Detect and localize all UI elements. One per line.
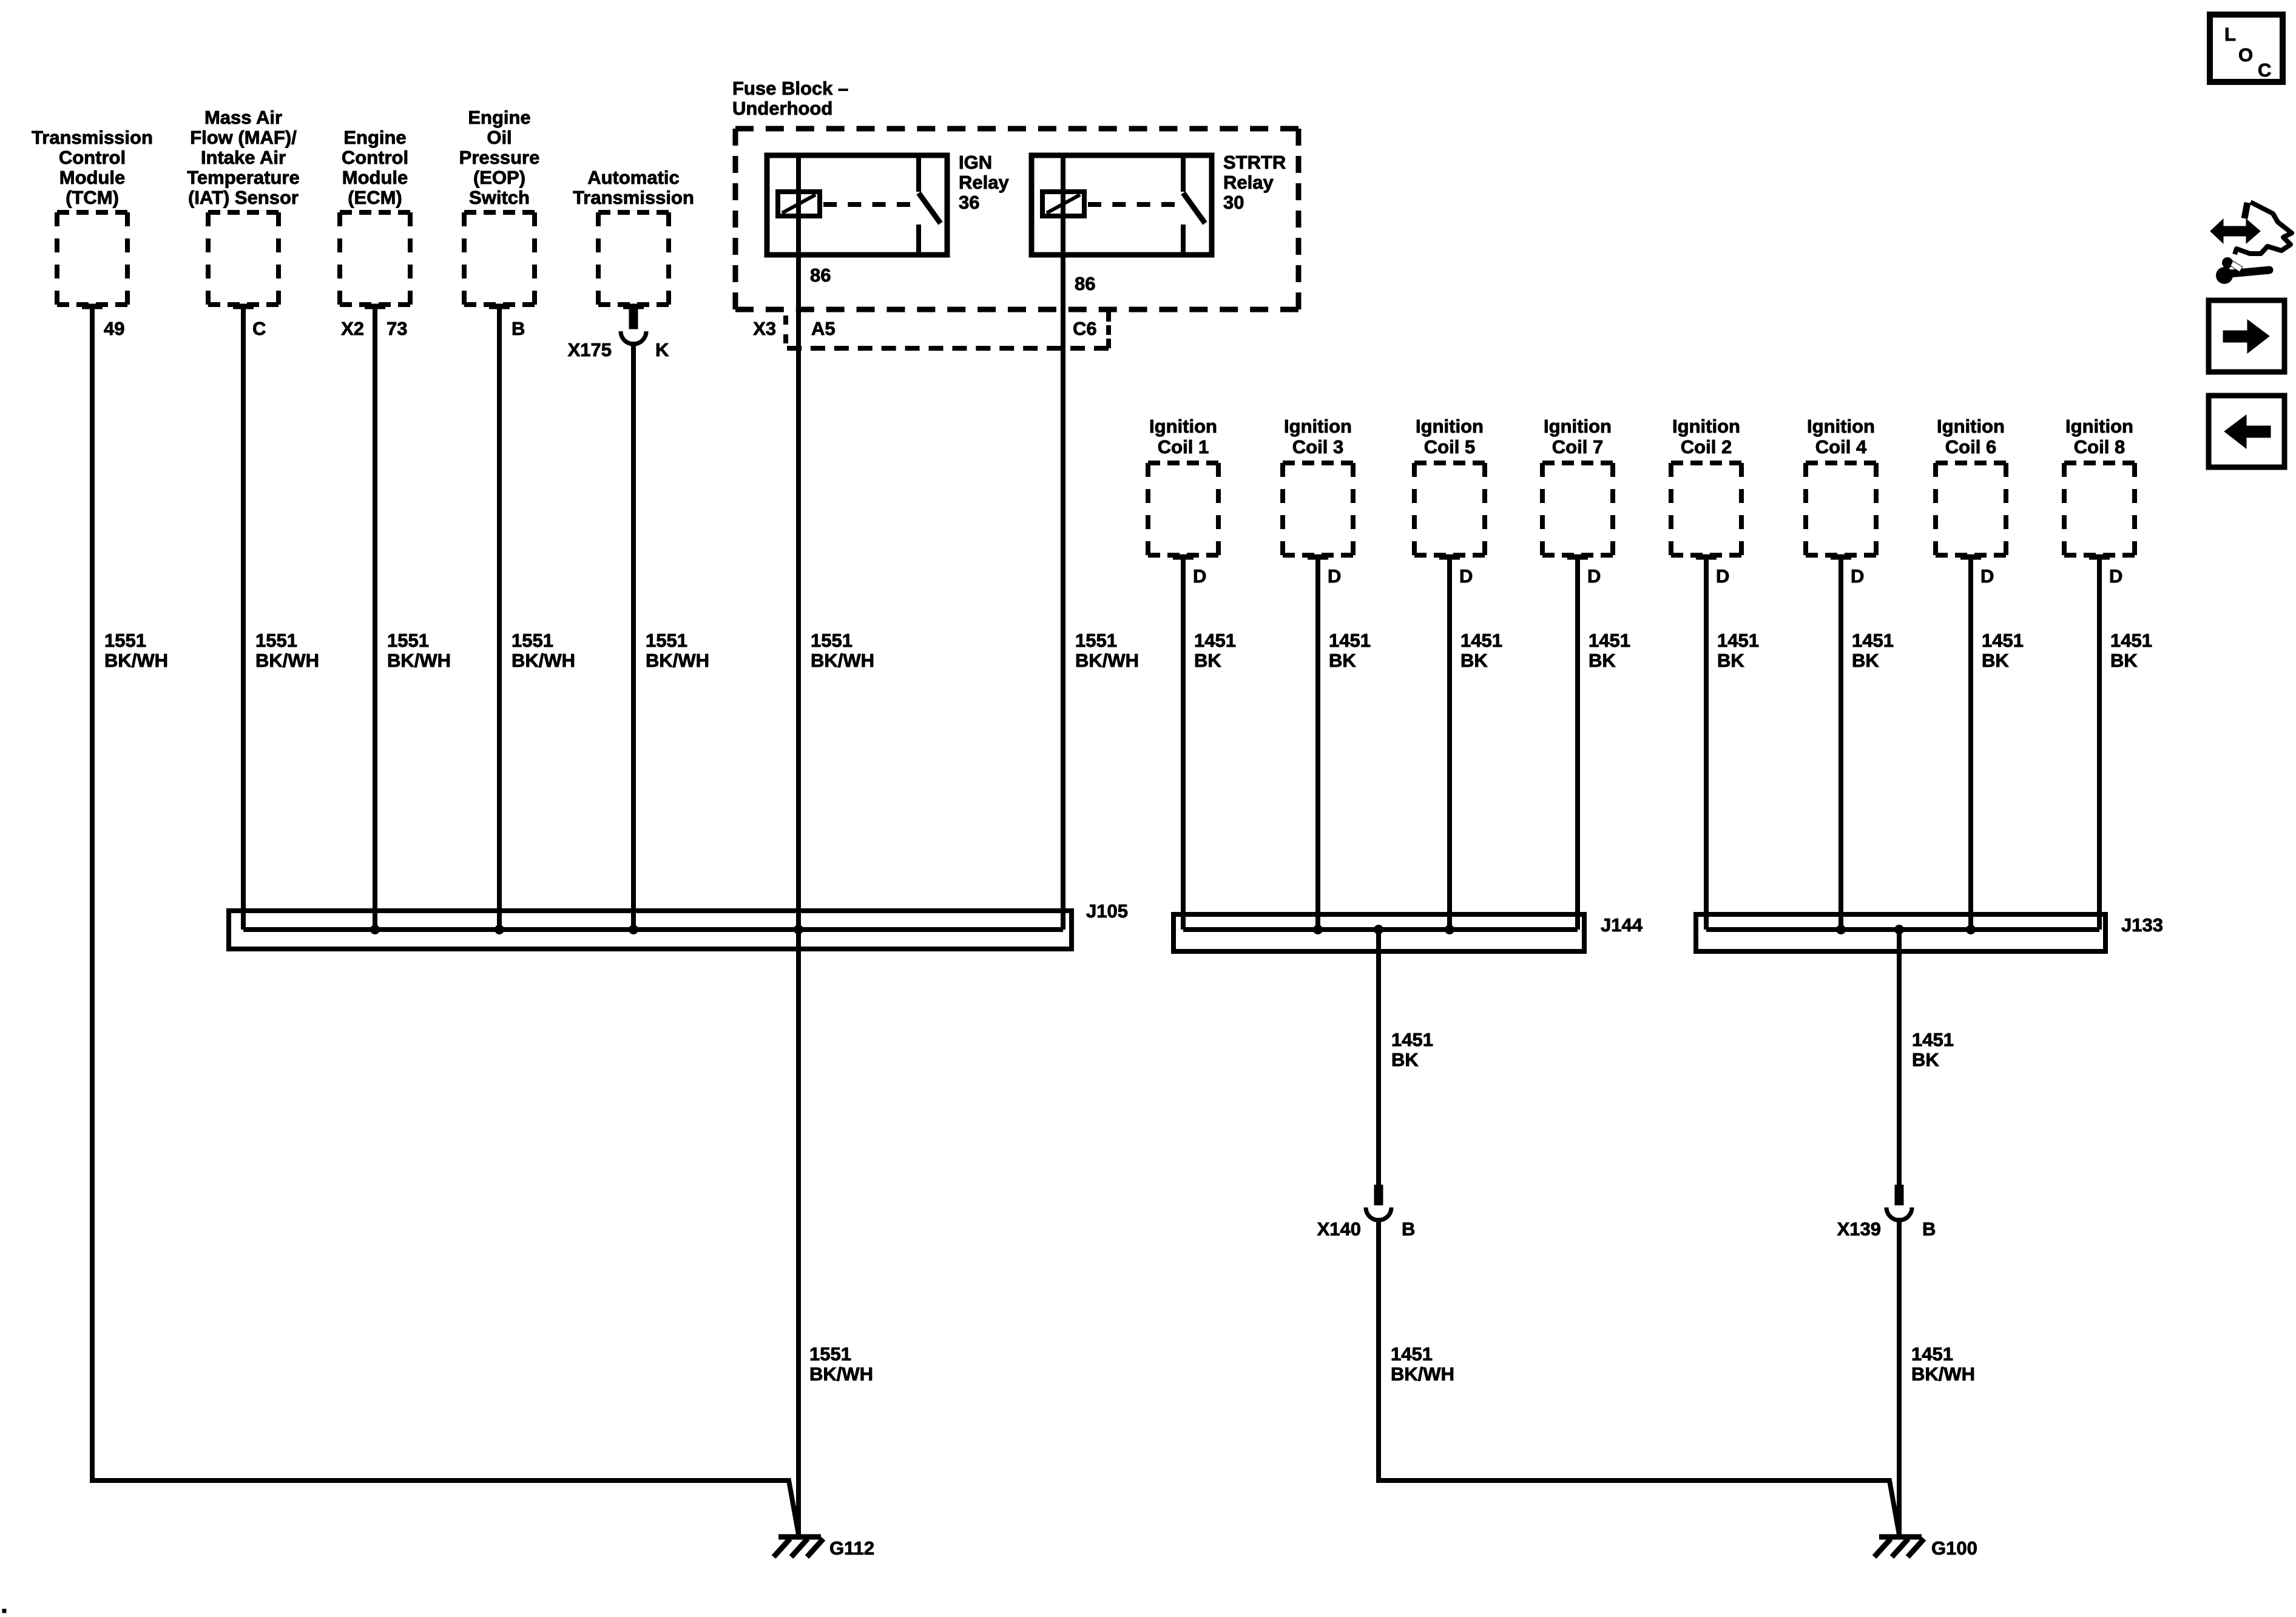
svg-text:K: K bbox=[655, 339, 669, 360]
svg-text:Ignition: Ignition bbox=[1416, 416, 1484, 437]
connector X3 pins A5 / C6 (dashed) bbox=[753, 312, 1109, 348]
svg-text:B: B bbox=[1402, 1218, 1415, 1240]
wire label 1551 BK/WH above G112 bbox=[809, 1343, 873, 1385]
wire 1451 BK/WH from X140 to G100 bbox=[1379, 1218, 1899, 1534]
wire 1551 BK/WH from STRTR relay pin 86 / C6 to splice J105 bbox=[1061, 155, 1065, 930]
pin 49 label (TCM) bbox=[104, 318, 124, 339]
connector X140 pin B (in-line connector) bbox=[1317, 1185, 1416, 1240]
wire label 1451 BK above X140 bbox=[1391, 1029, 1433, 1070]
svg-text:D: D bbox=[1328, 565, 1341, 587]
icon vehicle diagnostic (car with arrow and wrench) bbox=[2210, 202, 2292, 284]
wire label 1451 BK at x=2600 bbox=[1589, 630, 1630, 671]
svg-text:49: 49 bbox=[104, 318, 124, 339]
svg-text:86: 86 bbox=[810, 265, 831, 286]
svg-text:X2: X2 bbox=[341, 318, 364, 339]
svg-text:J105: J105 bbox=[1086, 900, 1128, 922]
svg-text:C: C bbox=[252, 318, 266, 339]
svg-text:BK: BK bbox=[1852, 650, 1879, 671]
svg-text:1551: 1551 bbox=[255, 630, 297, 651]
svg-text:(ECM): (ECM) bbox=[348, 187, 402, 208]
pin D label (ignition coil 1) bbox=[1193, 565, 1206, 587]
svg-text:Module: Module bbox=[59, 167, 126, 188]
wire label 1451 BK at x=1950 bbox=[1194, 630, 1236, 671]
svg-text:X3: X3 bbox=[753, 318, 776, 339]
svg-text:1451: 1451 bbox=[1194, 630, 1236, 651]
svg-text:D: D bbox=[1980, 565, 1994, 587]
wire label 1451 BK above X139 bbox=[1912, 1029, 1954, 1070]
svg-text:1451: 1451 bbox=[1982, 630, 2024, 651]
svg-text:BK/WH: BK/WH bbox=[512, 650, 575, 671]
svg-text:1451: 1451 bbox=[2110, 630, 2152, 651]
wire label 1551 BK/WH at x=618 bbox=[387, 630, 451, 671]
wire 1451 BK from ignition coil 7 to splice bbox=[1575, 557, 1580, 930]
pin 86 label (IGN relay) bbox=[810, 265, 831, 286]
component Ignition Coil 2 (dashed box) bbox=[1671, 416, 1741, 559]
svg-text:A5: A5 bbox=[811, 318, 836, 339]
component Ignition Coil 4 (dashed box) bbox=[1806, 416, 1876, 559]
component Ignition Coil 5 (dashed box) bbox=[1414, 416, 1485, 559]
svg-text:BK/WH: BK/WH bbox=[104, 650, 168, 671]
svg-text:(EOP): (EOP) bbox=[473, 167, 525, 188]
svg-text:B: B bbox=[1922, 1218, 1936, 1240]
wire label 1451 BK at x=3034 bbox=[1852, 630, 1894, 671]
svg-text:Oil: Oil bbox=[487, 127, 512, 148]
component EOP switch (dashed box) bbox=[459, 107, 540, 309]
svg-text:Ignition: Ignition bbox=[1544, 416, 1612, 437]
wire 1451 BK from ignition coil 3 to splice bbox=[1315, 557, 1320, 930]
svg-text:BK/WH: BK/WH bbox=[1911, 1363, 1975, 1385]
wire 1551 BK/WH from EOP switch to splice J105 bbox=[497, 306, 502, 930]
splice pack J133 bbox=[1696, 914, 2163, 951]
wire 1451 BK from ignition coil 6 to splice bbox=[1968, 557, 1973, 930]
wire 1451 BK from ignition coil 4 to splice bbox=[1838, 557, 1843, 930]
pin D label (ignition coil 8) bbox=[2109, 565, 2122, 587]
svg-text:1551: 1551 bbox=[104, 630, 146, 651]
svg-text:36: 36 bbox=[959, 192, 979, 213]
svg-text:Relay: Relay bbox=[1223, 172, 1274, 193]
svg-text:Coil 5: Coil 5 bbox=[1424, 436, 1475, 457]
svg-text:BK/WH: BK/WH bbox=[646, 650, 709, 671]
svg-text:BK/WH: BK/WH bbox=[255, 650, 319, 671]
component Ignition Coil 3 (dashed box) bbox=[1283, 416, 1353, 559]
pin D label (ignition coil 6) bbox=[1980, 565, 1994, 587]
svg-text:J133: J133 bbox=[2121, 914, 2163, 936]
wire 1551 BK/WH from TCM pin 49 to G112 bbox=[92, 306, 799, 1534]
svg-text:Underhood: Underhood bbox=[732, 98, 832, 119]
svg-text:BK/WH: BK/WH bbox=[811, 650, 874, 671]
svg-text:Ignition: Ignition bbox=[1672, 416, 1740, 437]
svg-text:(IAT) Sensor: (IAT) Sensor bbox=[188, 187, 299, 208]
wire label 1551 BK/WH at x=823 bbox=[512, 630, 575, 671]
wire 1451 BK from ignition coil 1 to splice bbox=[1181, 557, 1186, 930]
svg-text:Relay: Relay bbox=[959, 172, 1009, 193]
svg-text:Ignition: Ignition bbox=[1937, 416, 2005, 437]
wire stub automatic transmission pin K bbox=[631, 306, 636, 312]
svg-text:Ignition: Ignition bbox=[1807, 416, 1875, 437]
svg-text:Coil 6: Coil 6 bbox=[1945, 436, 1996, 457]
svg-text:1451: 1451 bbox=[1329, 630, 1371, 651]
svg-text:BK: BK bbox=[1194, 650, 1221, 671]
svg-text:Switch: Switch bbox=[469, 187, 530, 208]
wire label 1451 BK at x=3248 bbox=[1982, 630, 2024, 671]
svg-text:1451: 1451 bbox=[1589, 630, 1630, 651]
svg-text:BK: BK bbox=[2110, 650, 2138, 671]
wire 1451 BK from ignition coil 5 to splice bbox=[1447, 557, 1452, 930]
svg-text:G100: G100 bbox=[1931, 1538, 1977, 1559]
svg-text:BK: BK bbox=[1460, 650, 1488, 671]
pin D label (ignition coil 2) bbox=[1716, 565, 1729, 587]
svg-text:1551: 1551 bbox=[512, 630, 553, 651]
component Ignition Coil 1 (dashed box) bbox=[1148, 416, 1218, 559]
relay IGN Relay 36 bbox=[767, 152, 1009, 255]
splice pack J144 bbox=[1173, 914, 1643, 951]
component Automatic Transmission (dashed box) bbox=[573, 167, 694, 309]
wire label 1551 BK/WH at x=401 bbox=[255, 630, 319, 671]
svg-text:C6: C6 bbox=[1073, 318, 1097, 339]
wire 1451 BK from splice J144 to X140 bbox=[1376, 930, 1381, 1187]
svg-text:73: 73 bbox=[387, 318, 407, 339]
component MAF/IAT sensor (dashed box) bbox=[187, 107, 300, 309]
icon forward arrow box bbox=[2209, 300, 2284, 372]
pin C label (MAF/IAT) bbox=[252, 318, 266, 339]
svg-text:Coil 1: Coil 1 bbox=[1158, 436, 1209, 457]
svg-text:1451: 1451 bbox=[1912, 1029, 1954, 1050]
svg-text:C: C bbox=[2258, 59, 2271, 81]
pin B label (EOP switch) bbox=[512, 318, 525, 339]
svg-text:D: D bbox=[1716, 565, 1729, 587]
svg-text:BK/WH: BK/WH bbox=[1075, 650, 1139, 671]
wire 1451 BK/WH from X139 to G100 bbox=[1897, 1218, 1902, 1534]
svg-text:D: D bbox=[1459, 565, 1473, 587]
svg-text:Control: Control bbox=[342, 147, 408, 168]
wire 1551 BK/WH from X175 to splice J105 bbox=[631, 342, 636, 930]
component Ignition Coil 6 (dashed box) bbox=[1936, 416, 2006, 559]
svg-text:1551: 1551 bbox=[387, 630, 429, 651]
svg-text:(TCM): (TCM) bbox=[66, 187, 119, 208]
wire 1451 BK from ignition coil 2 to splice bbox=[1704, 557, 1709, 930]
svg-text:Module: Module bbox=[342, 167, 408, 188]
svg-text:IGN: IGN bbox=[959, 152, 992, 173]
splice pack J105 bbox=[229, 900, 1128, 949]
svg-text:1451: 1451 bbox=[1717, 630, 1759, 651]
wire 1451 BK from splice J133 to X139 bbox=[1897, 930, 1902, 1187]
stray mark bottom-left bbox=[2, 1609, 6, 1613]
wire 1551 BK/WH from ECM pin 73 to splice J105 bbox=[373, 306, 377, 930]
svg-text:Mass Air: Mass Air bbox=[204, 107, 282, 128]
wire 1551 BK/WH from IGN relay pin 86 / A5 to splice J105 and G112 bbox=[796, 155, 801, 1534]
pin D label (ignition coil 5) bbox=[1459, 565, 1473, 587]
component Ignition Coil 8 (dashed box) bbox=[2064, 416, 2135, 559]
svg-text:Engine: Engine bbox=[468, 107, 530, 128]
svg-text:G112: G112 bbox=[829, 1538, 874, 1559]
svg-text:X140: X140 bbox=[1317, 1218, 1361, 1240]
svg-text:1451: 1451 bbox=[1391, 1343, 1433, 1365]
svg-text:Intake Air: Intake Air bbox=[201, 147, 286, 168]
svg-text:L: L bbox=[2224, 24, 2236, 45]
connector X175 pin K (in-line connector) bbox=[568, 309, 669, 360]
svg-text:1551: 1551 bbox=[646, 630, 687, 651]
pin X2 / 73 labels (ECM) bbox=[341, 318, 407, 339]
LOC legend box bbox=[2210, 15, 2283, 82]
svg-text:Coil 2: Coil 2 bbox=[1681, 436, 1732, 457]
svg-text:Pressure: Pressure bbox=[459, 147, 540, 168]
svg-text:1451: 1451 bbox=[1391, 1029, 1433, 1050]
svg-text:D: D bbox=[1851, 565, 1864, 587]
svg-text:O: O bbox=[2238, 44, 2253, 66]
svg-text:BK: BK bbox=[1912, 1049, 1939, 1070]
pin 86 label (STRTR relay) bbox=[1075, 273, 1095, 294]
svg-text:STRTR: STRTR bbox=[1223, 152, 1286, 173]
svg-text:J144: J144 bbox=[1601, 914, 1643, 936]
wire label 1551 BK/WH at x=1752 bbox=[1075, 630, 1139, 671]
svg-text:1451: 1451 bbox=[1911, 1343, 1953, 1365]
wire label 1451 BK at x=2812 bbox=[1717, 630, 1759, 671]
svg-text:1551: 1551 bbox=[811, 630, 853, 651]
svg-text:1551: 1551 bbox=[809, 1343, 851, 1365]
wire label 1451 BK at x=2389 bbox=[1460, 630, 1502, 671]
svg-text:30: 30 bbox=[1223, 192, 1244, 213]
wire label 1551 BK/WH at x=1316 bbox=[811, 630, 874, 671]
svg-text:D: D bbox=[2109, 565, 2122, 587]
svg-text:Transmission: Transmission bbox=[573, 187, 694, 208]
svg-text:Fuse Block –: Fuse Block – bbox=[732, 78, 848, 99]
fuse block - underhood (dashed boundary) bbox=[732, 78, 1298, 309]
svg-text:86: 86 bbox=[1075, 273, 1095, 294]
ground G100 bbox=[1874, 1537, 1977, 1559]
component Ignition Coil 7 (dashed box) bbox=[1542, 416, 1613, 559]
svg-text:1551: 1551 bbox=[1075, 630, 1117, 651]
svg-text:Coil 3: Coil 3 bbox=[1292, 436, 1343, 457]
wire 1451 BK from ignition coil 8 to splice bbox=[2097, 557, 2102, 930]
svg-text:BK/WH: BK/WH bbox=[1391, 1363, 1454, 1385]
svg-text:X175: X175 bbox=[568, 339, 612, 360]
svg-text:Flow (MAF)/: Flow (MAF)/ bbox=[190, 127, 297, 148]
svg-text:Ignition: Ignition bbox=[1284, 416, 1352, 437]
connector X139 pin B (in-line connector) bbox=[1837, 1185, 1936, 1240]
wire label 1451 BK/WH below X139 bbox=[1911, 1343, 1975, 1385]
svg-text:Ignition: Ignition bbox=[1149, 416, 1217, 437]
wire label 1451 BK/WH below X140 bbox=[1391, 1343, 1454, 1385]
svg-text:Ignition: Ignition bbox=[2065, 416, 2133, 437]
svg-text:BK: BK bbox=[1982, 650, 2009, 671]
pin D label (ignition coil 3) bbox=[1328, 565, 1341, 587]
svg-text:D: D bbox=[1587, 565, 1601, 587]
svg-text:BK/WH: BK/WH bbox=[387, 650, 451, 671]
wire 1551 BK/WH from MAF/IAT to splice J105 bbox=[241, 306, 246, 930]
pin D label (ignition coil 4) bbox=[1851, 565, 1864, 587]
wire label 1451 BK at x=2172 bbox=[1329, 630, 1371, 671]
icon back arrow box bbox=[2209, 396, 2284, 467]
pin D label (ignition coil 7) bbox=[1587, 565, 1601, 587]
ground G112 bbox=[774, 1537, 874, 1559]
svg-text:B: B bbox=[512, 318, 525, 339]
svg-text:X139: X139 bbox=[1837, 1218, 1881, 1240]
wire label 1451 BK at x=3460 bbox=[2110, 630, 2152, 671]
svg-text:1451: 1451 bbox=[1852, 630, 1894, 651]
svg-text:BK: BK bbox=[1391, 1049, 1419, 1070]
svg-text:Coil 8: Coil 8 bbox=[2074, 436, 2125, 457]
svg-text:BK: BK bbox=[1329, 650, 1356, 671]
svg-text:Coil 7: Coil 7 bbox=[1552, 436, 1603, 457]
svg-text:Control: Control bbox=[59, 147, 126, 168]
relay STRTR Relay 30 bbox=[1032, 152, 1286, 255]
svg-text:Temperature: Temperature bbox=[187, 167, 300, 188]
svg-text:1451: 1451 bbox=[1460, 630, 1502, 651]
svg-text:BK/WH: BK/WH bbox=[809, 1363, 873, 1385]
svg-text:Automatic: Automatic bbox=[587, 167, 680, 188]
svg-text:Coil 4: Coil 4 bbox=[1815, 436, 1867, 457]
svg-text:Transmission: Transmission bbox=[32, 127, 153, 148]
wire label 1551 BK/WH at x=152 bbox=[104, 630, 168, 671]
component ECM (dashed box) bbox=[340, 127, 410, 309]
wire label 1551 BK/WH at x=1044 bbox=[646, 630, 709, 671]
svg-text:BK: BK bbox=[1717, 650, 1744, 671]
svg-text:BK: BK bbox=[1589, 650, 1616, 671]
svg-text:D: D bbox=[1193, 565, 1206, 587]
svg-text:Engine: Engine bbox=[343, 127, 406, 148]
component TCM (dashed box) bbox=[32, 127, 153, 309]
